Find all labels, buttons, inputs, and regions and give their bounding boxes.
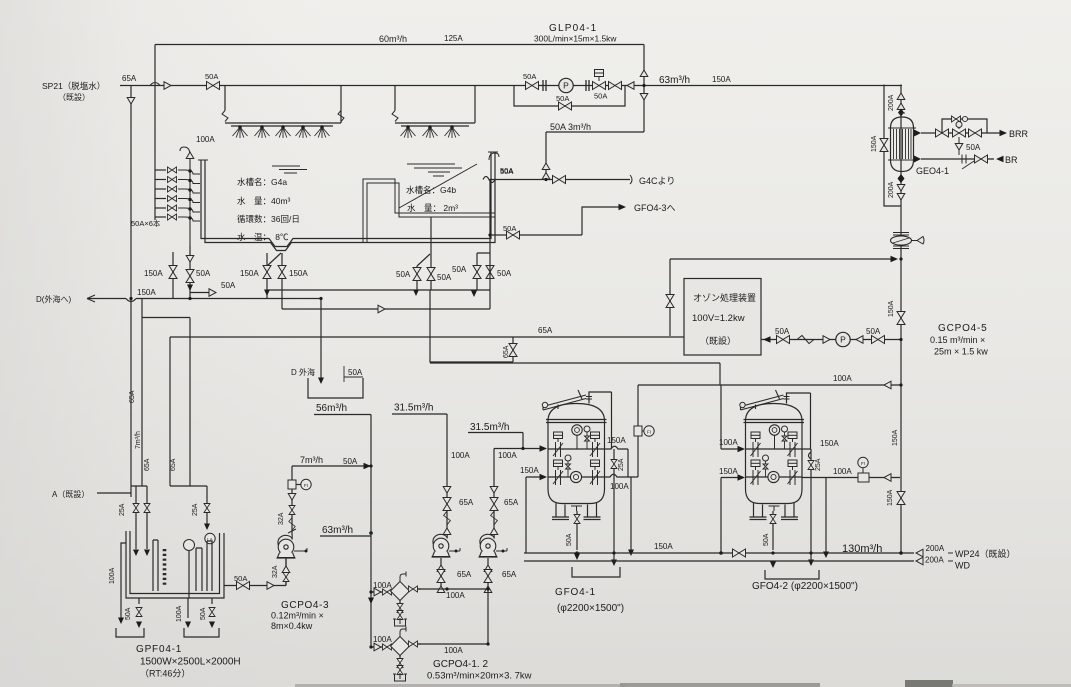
pipe from G4C [489,179,630,181]
check 50A down [955,144,963,151]
svg-text:50A: 50A [437,273,452,282]
pipe FI1 down [637,436,639,477]
svg-text:100V=1.2kw: 100V=1.2kw [692,313,745,324]
GPF gauge stem [188,551,190,599]
svg-text:200A: 200A [888,181,895,198]
svg-text:100A: 100A [833,467,852,476]
svg-text:50A: 50A [348,368,363,377]
flex GCP04-2 [491,511,498,525]
pipe WD line B [524,560,914,562]
valve 50A oz2 [872,336,885,344]
check valve down x131 [127,98,135,105]
valve 50A oz1 [777,336,790,344]
pipe 65A valve riser [512,337,514,362]
svg-text:56m³/h: 56m³/h [316,403,347,414]
svg-text:25A: 25A [815,458,822,471]
flow solD [187,285,193,292]
GPF bracket left [116,628,144,637]
GPF diffuser dotted [163,549,167,587]
G4b drain slant [417,254,430,266]
pump seal GCP04-2 [496,548,507,551]
pipe spray header 2 [395,123,475,126]
pipe x142 jog [142,299,190,487]
pipe spray riser 1 right [340,86,342,124]
sump bypass slant [267,253,281,266]
D drain bracket [308,378,363,398]
strainer GCP04-1.2 #1 [391,572,410,601]
svg-text:100A: 100A [444,646,463,655]
arrow down x631 [628,550,634,557]
pipe strainer drain 2 [399,656,401,660]
GF04-2 mini hg r1 [782,432,787,449]
GF1 drain bracket [572,567,620,577]
arrow left y385 [884,381,891,389]
check down [288,494,296,501]
GF2 drain bracket [765,570,819,579]
pipe 50A 3m3/h [546,131,644,133]
pipe GF2 riser upper [721,385,743,449]
svg-text:50A: 50A [503,224,516,233]
FI2 box [858,473,869,482]
GF04-2 bottom nozzle [769,504,780,512]
valve 50A G4C [553,176,566,184]
pipe BRR loop [942,119,987,133]
GF04-1 mini r1 [584,426,590,432]
pipe G4b drain x417 [416,266,418,290]
pipe main vertical x901 [900,85,902,554]
inst FI [301,479,311,489]
svg-text:150A: 150A [240,269,259,278]
pipe 50A branch [490,234,582,236]
GE flanges [888,128,916,160]
GPF baffle 1 [153,540,158,591]
svg-text:150A: 150A [820,439,839,448]
flow down y290 a [264,290,270,297]
spray nozzle 4 [296,126,311,138]
spray nozzle 6 [401,126,416,138]
pipe GF2 bottom drain [772,511,774,550]
svg-text:65A: 65A [504,498,519,507]
strainer GCP04-1.2 #2 [391,627,410,656]
flow down y290 b [413,290,419,297]
svg-text:65A: 65A [122,74,137,83]
pipe spray riser 2 right [474,86,476,124]
trap bars [893,233,909,249]
check down GCP04-1 [443,487,451,494]
valve 150A low [897,492,905,505]
svg-text:50A: 50A [497,269,512,278]
valve 65A low GCP04-1 [437,570,445,583]
seal dot [305,550,308,553]
trap diag [893,238,909,243]
arrow 50A stub [209,289,216,297]
arrow left on row2 ext [884,474,891,482]
svg-text:0.15 m³/min ×: 0.15 m³/min × [930,335,985,345]
arrow left oz [856,336,863,344]
arrow strainer 2 [374,643,381,651]
pipe column GCP04-2 [493,449,495,535]
svg-text:150A: 150A [712,75,731,84]
jog over node at x155 [150,83,160,86]
check up2 GCP04-2 [484,565,492,572]
valve out 2 [409,641,418,647]
svg-text:50A: 50A [866,327,881,336]
arrow down x371 [368,598,374,605]
vessel GF04-2 shell [746,404,803,504]
svg-text:150A: 150A [887,489,894,506]
tank GPF04-1 inner [130,531,220,594]
svg-text:100A: 100A [373,635,392,644]
valve 65A riser [666,295,674,308]
svg-text:水 温： 8℃: 水 温： 8℃ [237,232,289,242]
pipe strainer out 2 [417,643,421,645]
tick D 50A [344,366,363,382]
valve 25A a [133,504,139,513]
FI1 box [634,426,642,436]
valve 150A [169,266,177,279]
svg-text:SP21（脱塩水）: SP21（脱塩水） [42,81,105,91]
manifold branch 1 [155,169,166,171]
pump GCP04-2 [479,534,498,557]
pipe GPF outlet [224,559,286,586]
pipe ozone riser x670 [669,259,671,336]
vessel GF04-2 flange [744,420,805,423]
GF04-2 mini r1 [782,426,788,432]
check up 200A a [897,93,905,100]
svg-text:65A: 65A [503,345,510,358]
junction dot 63 [369,531,373,535]
flex joint [338,111,344,122]
GF04-2 mini r2 [763,455,769,461]
GF04-1 bfly r2 b [590,460,600,485]
scan smudge bottom 4 [952,684,1071,687]
svg-text:G4Cより: G4Cより [639,176,675,186]
manifold branch 2 [155,179,166,181]
flex oz [797,336,814,344]
pipe GF2 riser lower [721,478,743,554]
svg-text:（既設）: （既設） [700,335,736,346]
svg-text:200A: 200A [926,544,945,553]
GPF plate 3 [207,541,212,591]
pipe trap line y259 [670,258,894,260]
loop circle [962,116,967,121]
GF04-1 mini r2 [565,455,571,461]
svg-text:150A: 150A [654,542,673,551]
arrow GF1 drain [574,554,580,561]
water surface G4a [272,166,307,173]
svg-text:50A: 50A [523,72,536,81]
svg-text:200A: 200A [925,556,944,565]
arrow into x371 [364,463,372,469]
underline 31.5a [392,413,447,415]
svg-text:65A: 65A [129,390,136,403]
pipe A line [97,492,131,494]
drain valve a 2 [397,659,403,668]
GF04-1 bfly r1 b [590,432,600,457]
valve 50A x477 [473,266,481,279]
svg-text:130m³/h: 130m³/h [842,543,882,555]
svg-text:125A: 125A [444,34,463,43]
flow arrow [619,204,627,210]
drain valve b 2 [397,666,403,675]
scan smudge bottom 1 [295,684,625,687]
pipe GF2 top line [787,393,811,449]
check valve up [640,70,648,77]
svg-text:D(外海へ): D(外海へ) [36,294,71,304]
pipe GLP bypass [514,86,625,107]
valve 25A GF1 [611,460,617,469]
pipe 3way down [958,137,960,155]
svg-text:0.12m³/min ×: 0.12m³/min × [271,611,324,621]
svg-text:50A: 50A [452,265,467,274]
GPF float gauge [184,540,195,551]
GF04-1 gauge r2 [570,471,581,482]
pipe spray riser 1 left [224,86,226,111]
arrow into ozone [763,336,771,342]
manifold hook 2 [178,180,200,184]
GPF drain 2 [187,598,189,618]
flex GCP04-1 [444,511,451,525]
pipe G4b drain x477 [477,253,490,290]
pipe D drain vertical [320,299,322,379]
spray nozzle 1 [233,126,248,138]
valve 150A sump R [278,266,286,279]
pipe 7m3h [292,465,367,467]
svg-text:200A: 200A [888,94,895,111]
GF04-1 mini hg r2 [566,461,571,477]
manifold valve 5 [168,205,177,211]
pipe connector y486 right [170,486,207,525]
svg-text:100A: 100A [719,438,738,447]
valve 50A bypass [559,102,572,110]
vessel GF04-2 row2 pipe [746,476,803,478]
check up3 GCP04-1 [437,586,445,593]
GE nozzle r1 arrow [914,130,921,137]
arrow into LA [204,524,210,531]
pipe GF1 25A col [613,449,615,560]
valve 50A drain3 [209,608,215,617]
GPF overflow left [121,543,126,618]
arrow GF2 drain [770,562,776,569]
pipe column GCP04-1 [446,414,448,534]
pipe spray header 1 [225,123,341,126]
FI2 stem [862,468,864,473]
pipe to GFO4-3 [582,207,620,235]
seal dot GCP04-1 [455,550,458,553]
scan smudge bottom 2 [620,683,820,687]
3way top circle [956,122,962,128]
pipe drain x190 [189,246,191,299]
arrow into GF2 r2 [738,474,746,480]
valve loop [952,116,961,122]
manifold branch 6 [155,216,166,218]
junction dots [642,84,645,87]
svg-text:A（既設）: A（既設） [52,489,89,499]
vessel GF04-1 handrail hub [542,402,547,407]
inst LA circle [205,533,215,543]
svg-text:50A: 50A [966,143,981,152]
valve BRR 1 [936,129,949,137]
svg-text:50A: 50A [500,166,513,175]
pipe 100A y385 [638,384,901,386]
pipe manifold vertical x155 [154,45,156,221]
pipe 31.5 to GF1 [494,433,545,449]
GF04-1 bfly r1 a [553,432,563,457]
valve 50A main spray [207,82,220,90]
pipe riser x644 [643,45,645,133]
valve 50A branch [507,231,520,239]
pipe collector y290 [268,289,490,291]
GF04-2 bfly r1 a [751,432,761,457]
svg-text:0.53m³/min×20m×3. 7kw: 0.53m³/min×20m×3. 7kw [427,671,532,682]
GF04-1 mini hg r1 [585,432,590,449]
pipe GF1 row2 ext [605,474,639,550]
svg-text:WD: WD [955,561,970,571]
drain funnel 2 [393,673,407,681]
drain valve a 1 [397,604,403,613]
pipe pump suction [285,558,287,586]
svg-text:100A: 100A [451,451,470,460]
GE bottom diamond [898,174,905,183]
svg-text:GCPO4-3: GCPO4-3 [281,600,329,611]
GF04-1 gauge r1 inner [575,428,580,433]
pipe GF1 row1 ext [605,446,629,476]
valve 50A after pump [609,82,622,90]
svg-text:50A 3m³/h: 50A 3m³/h [550,122,591,132]
manifold wall dot 3 [188,188,191,191]
manifold valve 4 [168,196,177,202]
svg-text:（RT:46分）: （RT:46分） [140,669,190,679]
pipe 65A long [170,336,684,338]
GEO4-1 leader [962,161,974,169]
pipe GF1 top line [589,392,612,449]
tank G4b vent hook [489,153,499,160]
GF04-1 gauge r2 inner [573,474,578,479]
arrow up riser [186,152,194,159]
pipe G4b drain x431 [430,217,432,290]
vessel GF04-1 flange [546,420,607,423]
valve 150A sump L [263,266,271,279]
water surface G4b [407,164,462,176]
flex joint [222,111,228,122]
valve up 2 [542,173,550,180]
svg-text:150A: 150A [520,466,539,475]
valve 50A G4b L [413,268,421,281]
svg-text:7m³/h: 7m³/h [135,431,142,449]
pipe sump drain x282 [281,253,283,309]
pipe FI1 drop [637,385,639,426]
vessel GF04-2 top nozzle [784,397,790,404]
pipe drop to G4C line [545,132,547,180]
svg-text:水 量：40m³: 水 量：40m³ [237,196,291,206]
svg-text:150A: 150A [137,288,156,297]
svg-text:1500W×2500L×2000H: 1500W×2500L×2000H [140,657,241,668]
manifold branch 3 [155,188,166,190]
flow arrow right [267,582,274,590]
svg-text:50A: 50A [343,457,358,466]
svg-text:150A: 150A [144,269,163,278]
svg-text:100A: 100A [498,451,517,460]
svg-text:D 外海: D 外海 [291,367,315,377]
svg-text:63m³/h: 63m³/h [322,525,353,536]
svg-text:25A: 25A [618,458,625,471]
svg-text:50A: 50A [556,94,569,103]
GF04-2 mini hg r2 [763,461,768,477]
valve up 1 [542,163,550,170]
GF04-2 gauge r2 inner [771,474,776,479]
pipe GF1 bottom drain [576,511,578,550]
spray nozzle 5 [315,126,330,138]
svg-text:60m³/h: 60m³/h [379,34,407,44]
pipe x131 lower [130,299,132,498]
valve 25A b [144,504,150,513]
pipe x826 drain [825,478,827,553]
check up3 GCP04-2 [484,586,492,593]
svg-text:7m³/h: 7m³/h [300,455,323,465]
pipe drain x173 [172,252,174,299]
valve 32A b [283,573,289,582]
svg-text:100A: 100A [109,567,116,584]
svg-text:100A: 100A [176,605,183,622]
valve BR [975,155,988,163]
exchanger GE04-1 shell [891,117,914,172]
spray nozzle 2 [255,126,270,138]
GPF bracket right [184,628,219,637]
svg-text:150A: 150A [892,429,899,446]
valve 150A bypass [880,139,888,152]
flex joint [392,111,398,122]
pipe strainer drain 1 [399,601,401,605]
manifold hook 6 [178,217,200,221]
svg-text:FI: FI [861,461,865,466]
tank G4a inner wall [205,152,495,251]
spray nozzle 3 [276,126,291,138]
svg-text:BR: BR [1005,155,1018,165]
check down GCP04-2 [490,487,498,494]
GF04-2 gauge r1 [769,425,779,435]
svg-text:50A: 50A [221,281,236,290]
svg-text:水 量： 2m³: 水 量： 2m³ [407,203,458,213]
svg-text:65A: 65A [457,570,472,579]
valve 50A outlet [237,582,250,590]
valve 50A GF2 drain [770,515,776,524]
drain funnel 1 [393,618,407,626]
reducer box [288,480,296,489]
pipe x190 lower [189,318,191,487]
valve in 1 [383,589,392,595]
vessel GF04-2 rail tick [776,390,780,399]
svg-text:100A: 100A [446,591,465,600]
valve 25A GF2 [808,461,814,470]
arrow BRR [1000,130,1008,136]
pipe collector y309 [282,308,490,310]
valve 50A G4b R [427,268,435,281]
pump GCP04-5 [836,332,850,346]
svg-text:65A: 65A [144,458,151,471]
pipe connector y486 left [131,486,147,531]
slant tick [288,529,296,533]
svg-text:50A: 50A [234,574,247,583]
inst FI1 [644,426,654,436]
arrow drain1 [136,622,142,629]
svg-text:50A: 50A [566,533,573,546]
tank G4b partition [363,179,495,243]
tank G4a outer wall [201,152,491,247]
svg-text:8m×0.4kw: 8m×0.4kw [271,621,313,631]
vessel GF04-1 row2 pipe [548,476,605,478]
svg-text:50A: 50A [594,92,607,101]
pipe left vertical x131 [130,86,132,299]
